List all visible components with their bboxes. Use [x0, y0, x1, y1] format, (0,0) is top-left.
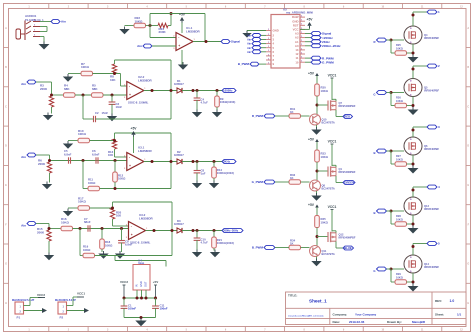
svg-text:R: R [373, 40, 375, 44]
svg-text:1K: 1K [290, 110, 294, 114]
svg-text:10KΩ: 10KΩ [321, 89, 329, 93]
svg-text:IN: IN [135, 284, 139, 287]
svg-text:Company:: Company: [333, 313, 348, 317]
svg-text:-: - [129, 155, 130, 159]
svg-text:10: 10 [295, 60, 299, 64]
svg-text:200Hz~2KHz: 200Hz~2KHz [322, 44, 341, 48]
svg-text:Ain: Ain [247, 39, 251, 42]
svg-text:IRF9540PBF: IRF9540PBF [424, 36, 440, 40]
svg-text:VCC2: VCC2 [37, 293, 45, 297]
svg-text:Your Company: Your Company [355, 313, 376, 317]
svg-text:LM358DR: LM358DR [186, 30, 201, 34]
svg-text:10KΩ: 10KΩ [118, 177, 126, 181]
svg-text:10K: 10K [108, 153, 113, 157]
svg-text:+: + [131, 233, 133, 237]
svg-text:GND: GND [273, 29, 279, 33]
svg-text:LM358DR: LM358DR [138, 78, 153, 82]
svg-text:Ain: Ain [21, 82, 26, 86]
svg-text:GND: GND [139, 281, 143, 287]
svg-text:10K: 10K [110, 78, 116, 82]
svg-text:REV:: REV: [435, 299, 442, 303]
svg-text:100KΩ(1003): 100KΩ(1003) [217, 241, 234, 245]
svg-text:-: - [131, 224, 132, 228]
svg-text:BC547BTA: BC547BTA [322, 252, 335, 256]
svg-text:A: A [5, 27, 7, 30]
svg-text:VCC2: VCC2 [120, 280, 128, 284]
svg-text:C: C [467, 105, 469, 108]
svg-text:BC547BTA: BC547BTA [322, 187, 335, 191]
svg-text:10KΩ: 10KΩ [105, 243, 113, 247]
svg-text:+5V: +5V [131, 127, 138, 131]
svg-text:+5V: +5V [308, 72, 315, 76]
svg-text:SOIC-8_150MIL: SOIC-8_150MIL [128, 101, 149, 105]
svg-text:VCC1: VCC1 [328, 74, 337, 78]
svg-text:200K: 200K [38, 162, 46, 166]
svg-text:10KΩ(1003): 10KΩ(1003) [220, 100, 236, 104]
svg-text:200K: 200K [37, 230, 45, 234]
svg-text:D: D [5, 145, 7, 148]
svg-text:SOIC-8_150MIL: SOIC-8_150MIL [130, 241, 151, 245]
svg-text:B_PWM: B_PWM [252, 246, 264, 250]
svg-text:10KΩ: 10KΩ [396, 157, 403, 161]
svg-text:P1: P1 [17, 316, 21, 320]
svg-text:2KHz: 2KHz [223, 160, 230, 164]
svg-text:G: G [5, 263, 7, 266]
svg-text:VCC1: VCC1 [77, 292, 85, 296]
svg-text:+: + [129, 93, 131, 97]
svg-text:+: + [178, 44, 180, 48]
svg-text:OUT: OUT [144, 281, 148, 287]
svg-text:1/1: 1/1 [457, 313, 462, 317]
svg-text:Sheet_1: Sheet_1 [309, 299, 327, 304]
svg-text:C2: C2 [95, 111, 99, 115]
svg-text:10KΩ: 10KΩ [396, 217, 403, 221]
svg-text:BC547BTA: BC547BTA [322, 121, 335, 125]
svg-text:C: C [5, 105, 7, 108]
svg-text:IRF9540PBF: IRF9540PBF [424, 89, 440, 93]
svg-text:+: + [129, 164, 131, 168]
svg-text:1.0: 1.0 [450, 299, 455, 303]
svg-text:10KΩ: 10KΩ [78, 132, 87, 136]
svg-text:B: B [5, 66, 7, 69]
svg-text:1K: 1K [290, 242, 294, 246]
svg-text:A: A [467, 27, 469, 30]
svg-text:68K: 68K [64, 87, 70, 91]
svg-text:GREEN: GREEN [344, 181, 354, 185]
svg-text:1K: 1K [290, 176, 294, 180]
svg-text:D: D [467, 145, 469, 148]
svg-text:Ain: Ain [61, 20, 66, 24]
svg-text:10KΩ: 10KΩ [321, 220, 329, 224]
svg-text:RED: RED [344, 115, 350, 119]
svg-text:ManojBR: ManojBR [412, 320, 426, 324]
svg-text:15nF: 15nF [102, 111, 109, 115]
svg-text:+5V: +5V [307, 18, 314, 22]
svg-text:Ain: Ain [21, 155, 26, 159]
svg-text:B: B [467, 66, 469, 69]
svg-text:+5V: +5V [179, 13, 186, 17]
svg-text:10KΩ: 10KΩ [396, 275, 403, 279]
svg-text:68nF: 68nF [84, 220, 91, 224]
svg-text:Ain: Ain [21, 223, 26, 227]
svg-text:G: G [373, 269, 375, 273]
svg-text:10KΩ: 10KΩ [396, 99, 403, 103]
svg-text:VCC1: VCC1 [328, 205, 337, 209]
svg-text:Sheet:: Sheet: [435, 313, 444, 317]
svg-text:Signal: Signal [231, 40, 240, 44]
svg-text:B: B [373, 211, 375, 215]
svg-text:G: G [373, 93, 375, 97]
svg-text:G_PWM: G_PWM [322, 60, 334, 64]
svg-text:G_PWM: G_PWM [252, 180, 264, 184]
svg-text:10KΩ: 10KΩ [135, 19, 144, 23]
svg-text:LM358DR: LM358DR [138, 149, 153, 153]
svg-text:+5V: +5V [308, 203, 315, 207]
svg-text:Date:: Date: [333, 320, 341, 324]
svg-text:TITLE:: TITLE: [288, 294, 297, 298]
svg-text:<200Hz: <200Hz [223, 89, 233, 93]
svg-text:easyeda.com/ManojBR_schematic: easyeda.com/ManojBR_schematic [288, 315, 325, 318]
svg-text:200Hz~2KHz: 200Hz~2KHz [223, 230, 239, 233]
svg-text:LM358DR: LM358DR [139, 216, 154, 220]
svg-text:200K: 200K [40, 87, 48, 91]
svg-text:1uF: 1uF [201, 172, 206, 176]
svg-text:1N5817: 1N5817 [174, 222, 184, 226]
svg-text:100nF: 100nF [160, 307, 168, 311]
svg-text:2019-02-06: 2019-02-06 [349, 320, 365, 324]
svg-text:1N5817: 1N5817 [174, 153, 184, 157]
svg-text:10KΩ: 10KΩ [81, 65, 90, 69]
svg-text:AUDIO1: AUDIO1 [25, 14, 37, 18]
svg-text:IRF9540PBF: IRF9540PBF [424, 207, 440, 211]
svg-text:4.7uF: 4.7uF [201, 101, 209, 105]
svg-text:4.7uF: 4.7uF [201, 241, 209, 245]
svg-text:IRF9540PBF: IRF9540PBF [424, 147, 440, 151]
svg-text:10KΩ: 10KΩ [83, 248, 91, 252]
svg-text:+5V: +5V [153, 280, 158, 284]
svg-text:6.8nF: 6.8nF [64, 153, 72, 157]
svg-text:100KΩ(1003): 100KΩ(1003) [217, 171, 234, 175]
svg-text:IRF9540NPBF: IRF9540NPBF [339, 104, 356, 108]
svg-text:R_PWM: R_PWM [252, 114, 264, 118]
svg-text:100nF: 100nF [128, 307, 136, 311]
svg-text:H: H [467, 302, 469, 305]
svg-text:+5V: +5V [308, 138, 315, 142]
svg-text:10KΩ: 10KΩ [61, 220, 70, 224]
svg-text:B_PWM: B_PWM [238, 62, 250, 66]
svg-text:Drawn By:: Drawn By: [387, 320, 402, 324]
svg-text:10K: 10K [116, 214, 121, 218]
svg-text:6.8nF: 6.8nF [92, 153, 100, 157]
svg-text:IRF9540PBF: IRF9540PBF [424, 265, 440, 269]
svg-text:10KΩ: 10KΩ [321, 155, 329, 159]
svg-text:-: - [178, 35, 179, 39]
svg-text:68K: 68K [92, 87, 98, 91]
svg-text:200K: 200K [159, 30, 167, 34]
svg-text:Ain: Ain [247, 47, 251, 50]
svg-text:IRF9540NPBF: IRF9540NPBF [339, 170, 356, 174]
svg-text:BLUE: BLUE [344, 246, 352, 250]
svg-text:1N5817: 1N5817 [174, 82, 184, 86]
svg-text:Ain: Ain [247, 51, 251, 54]
svg-text:Ain: Ain [247, 35, 251, 38]
svg-text:G: G [467, 263, 469, 266]
svg-text:Ain: Ain [247, 43, 251, 46]
svg-text:B: B [373, 151, 375, 155]
svg-text:H: H [5, 302, 7, 305]
svg-text:10KΩ: 10KΩ [88, 181, 96, 185]
svg-text:Ain: Ain [137, 44, 142, 48]
svg-text:IRF9540NPBF: IRF9540NPBF [339, 236, 356, 240]
svg-text:10KΩ: 10KΩ [78, 200, 87, 204]
svg-text:10nF: 10nF [116, 105, 123, 109]
svg-text:10KΩ: 10KΩ [396, 46, 403, 50]
svg-text:VCC1: VCC1 [328, 140, 337, 144]
svg-text:P2: P2 [60, 316, 64, 320]
svg-text:-: - [129, 84, 130, 88]
